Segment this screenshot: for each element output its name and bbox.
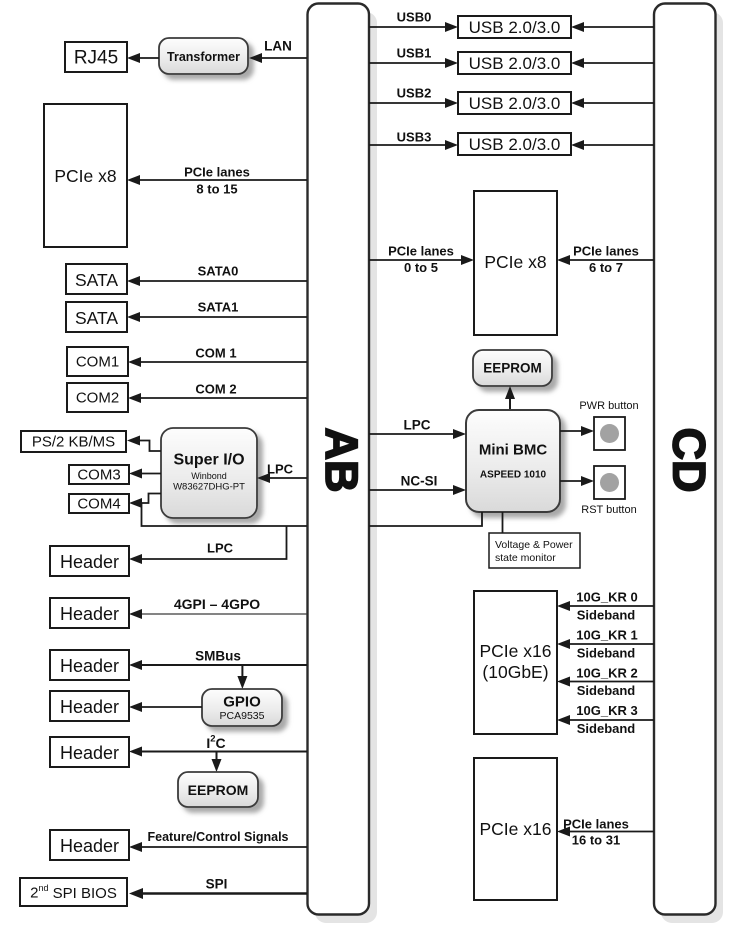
wire Mini BMC to RST button xyxy=(560,476,594,486)
wire I2C branch down to EEPROM xyxy=(212,752,222,773)
svg-text:GPIO: GPIO xyxy=(223,694,261,711)
label COM 2 xyxy=(195,382,236,397)
block GPIO PCA9535 xyxy=(202,689,282,726)
wire Mini BMC bottom to AB LPC bus xyxy=(369,512,482,526)
label USB3 xyxy=(397,130,432,145)
label SATA1 xyxy=(198,300,239,315)
label SMBus xyxy=(195,649,241,664)
block EEPROM lower-left xyxy=(178,772,258,807)
block COM4 xyxy=(69,494,129,513)
label USB2 xyxy=(397,86,432,101)
svg-text:RJ45: RJ45 xyxy=(74,48,118,69)
svg-text:Header: Header xyxy=(60,743,119,763)
block PCIe x16 bottom xyxy=(474,758,557,900)
label Feature/Control Signals xyxy=(148,830,289,844)
wire Super I/O to COM4 xyxy=(129,494,161,509)
svg-text:PCIe x8: PCIe x8 xyxy=(484,252,546,272)
wire Mini BMC to EEPROM xyxy=(505,386,515,410)
block Header LPC xyxy=(50,546,129,576)
svg-text:0 to 5: 0 to 5 xyxy=(404,260,438,275)
svg-text:Sideband: Sideband xyxy=(577,683,636,698)
svg-text:10G_KR 0: 10G_KR 0 xyxy=(576,590,637,605)
label NC-SI xyxy=(401,474,438,489)
wire Mini BMC to Voltage monitor xyxy=(502,512,504,533)
wire Super I/O to COM3 xyxy=(129,469,161,479)
block COM2 xyxy=(67,383,128,412)
svg-text:SMBus: SMBus xyxy=(195,649,241,664)
block PCIe x8 left xyxy=(44,104,127,247)
block PS/2 KB/MS xyxy=(21,431,126,452)
block SATA upper xyxy=(66,264,127,294)
svg-text:USB2: USB2 xyxy=(397,86,432,101)
svg-text:NC-SI: NC-SI xyxy=(401,474,438,489)
svg-text:RST button: RST button xyxy=(581,504,636,516)
svg-text:LPC: LPC xyxy=(267,462,294,477)
wire I2C xyxy=(129,747,307,757)
block Header I2C xyxy=(50,737,129,767)
svg-text:Header: Header xyxy=(60,836,119,856)
svg-text:AB: AB xyxy=(316,428,367,493)
block COM1 xyxy=(67,347,128,376)
svg-text:Header: Header xyxy=(60,697,119,717)
block Header SMBus xyxy=(50,650,129,680)
svg-text:LPC: LPC xyxy=(207,541,234,556)
block PCIe x16 10GbE xyxy=(474,591,557,734)
svg-text:USB 2.0/3.0: USB 2.0/3.0 xyxy=(469,135,561,154)
wire Mini BMC to PWR button xyxy=(560,426,594,436)
block EEPROM middle xyxy=(473,350,552,386)
wire PCIe lanes 16 to 31 xyxy=(557,827,654,837)
svg-text:Voltage & Power: Voltage & Power xyxy=(495,539,573,551)
block Super I/O xyxy=(161,428,257,518)
svg-text:USB1: USB1 xyxy=(397,46,432,61)
block Mini BMC xyxy=(466,410,560,512)
wire Transformer to RJ45 xyxy=(127,53,159,63)
block Voltage & Power state monitor xyxy=(489,533,580,568)
svg-text:10G_KR 3: 10G_KR 3 xyxy=(576,703,637,718)
block Header Feature xyxy=(50,830,129,860)
label PWR button xyxy=(579,400,638,412)
svg-text:SATA: SATA xyxy=(75,308,118,328)
svg-text:Feature/Control Signals: Feature/Control Signals xyxy=(148,830,289,844)
label I2C xyxy=(206,733,225,751)
svg-text:COM2: COM2 xyxy=(76,390,119,407)
svg-text:6 to 7: 6 to 7 xyxy=(589,260,623,275)
wire NC-SI from AB to Mini BMC xyxy=(369,485,466,495)
svg-text:Header: Header xyxy=(60,552,119,572)
block RJ45 xyxy=(65,42,127,72)
label LPC at header xyxy=(207,541,234,556)
label PCIe lanes 0 to 5 xyxy=(388,244,454,276)
svg-text:Header: Header xyxy=(60,656,119,676)
block COM3 xyxy=(69,465,129,484)
svg-text:Sideband: Sideband xyxy=(577,646,636,661)
svg-text:10G_KR 1: 10G_KR 1 xyxy=(576,628,637,643)
wire SPI xyxy=(129,888,307,899)
block Header 4GPI xyxy=(50,598,129,628)
svg-text:PCA9535: PCA9535 xyxy=(220,710,265,722)
wire 10G_KR 2 Sideband xyxy=(557,677,654,687)
svg-text:Header: Header xyxy=(60,604,119,624)
wire SMBus xyxy=(129,660,307,670)
wire PCIe lanes 6 to 7 xyxy=(557,255,654,265)
wire SATA1 xyxy=(127,312,307,322)
svg-text:PCIe lanes: PCIe lanes xyxy=(388,244,454,259)
wire USB box1 from CD xyxy=(571,22,654,32)
wire 10G_KR 1 Sideband xyxy=(557,639,654,649)
wire USB box2 from CD xyxy=(571,58,654,68)
label LPC at Super I/O xyxy=(267,462,294,477)
svg-text:COM 2: COM 2 xyxy=(195,382,236,397)
svg-text:8 to 15: 8 to 15 xyxy=(196,182,237,197)
label LPC at Mini BMC xyxy=(404,418,431,433)
label PCIe lanes 16 to 31 xyxy=(563,817,629,848)
svg-text:USB 2.0/3.0: USB 2.0/3.0 xyxy=(469,94,561,113)
block PCIe x8 middle xyxy=(474,191,557,335)
svg-text:Sideband: Sideband xyxy=(577,721,636,736)
label 10G_KR 1 Sideband xyxy=(576,628,637,661)
svg-text:Winbond: Winbond xyxy=(191,471,227,481)
wire LPC from AB to Super I/O xyxy=(257,473,307,483)
label SPI xyxy=(206,877,228,892)
svg-text:PCIe lanes: PCIe lanes xyxy=(184,165,250,180)
svg-text:SATA: SATA xyxy=(75,270,118,290)
wire 10G_KR 3 Sideband xyxy=(557,715,654,725)
svg-text:state monitor: state monitor xyxy=(495,552,556,564)
wire USB0 from AB xyxy=(369,22,458,32)
svg-text:(10GbE): (10GbE) xyxy=(482,662,548,682)
block USB 2.0/3.0 no1 xyxy=(458,16,571,38)
svg-text:PWR button: PWR button xyxy=(579,400,638,412)
svg-text:PCIe lanes: PCIe lanes xyxy=(563,817,629,832)
wire SATA0 xyxy=(127,276,307,286)
label 10G_KR 0 Sideband xyxy=(576,590,637,623)
label RST button xyxy=(581,504,636,516)
wire 4GPI-4GPO xyxy=(129,609,307,619)
block USB 2.0/3.0 no4 xyxy=(458,133,571,155)
wire USB box4 from CD xyxy=(571,140,654,150)
svg-text:PCIe x16: PCIe x16 xyxy=(480,641,552,661)
svg-text:USB 2.0/3.0: USB 2.0/3.0 xyxy=(469,18,561,37)
wire USB box3 from CD xyxy=(571,98,654,108)
block RST button xyxy=(594,466,625,499)
svg-text:10G_KR 2: 10G_KR 2 xyxy=(576,666,637,681)
svg-text:16 to 31: 16 to 31 xyxy=(572,833,620,848)
wire Feature/Control Signals xyxy=(129,842,307,852)
svg-text:4GPI – 4GPO: 4GPI – 4GPO xyxy=(174,596,260,612)
block Header GPIO xyxy=(50,691,129,721)
svg-text:USB3: USB3 xyxy=(397,130,432,145)
wire COM 2 xyxy=(128,393,307,403)
svg-text:USB 2.0/3.0: USB 2.0/3.0 xyxy=(469,54,561,73)
svg-text:COM1: COM1 xyxy=(76,354,119,371)
block USB 2.0/3.0 no3 xyxy=(458,92,571,114)
wire USB2 from AB xyxy=(369,98,458,108)
svg-text:LAN: LAN xyxy=(264,39,292,54)
block SATA lower xyxy=(66,302,127,332)
svg-text:COM 1: COM 1 xyxy=(195,346,236,361)
wire USB3 from AB xyxy=(369,140,458,150)
svg-text:PCIe x16: PCIe x16 xyxy=(480,819,552,839)
svg-text:PCIe x8: PCIe x8 xyxy=(54,166,116,186)
svg-text:Sideband: Sideband xyxy=(577,608,636,623)
label SATA0 xyxy=(198,264,239,279)
connector AB xyxy=(308,4,378,924)
label PCIe lanes 8 to 15 xyxy=(184,165,250,197)
svg-text:EEPROM: EEPROM xyxy=(188,782,249,798)
svg-text:Mini BMC: Mini BMC xyxy=(479,442,547,459)
block Transformer xyxy=(159,38,248,74)
svg-text:SPI: SPI xyxy=(206,877,228,892)
label LAN xyxy=(264,39,292,54)
svg-text:EEPROM: EEPROM xyxy=(483,361,542,376)
label USB0 xyxy=(397,10,432,25)
block USB 2.0/3.0 no2 xyxy=(458,52,571,74)
wire SMBus branch down to GPIO xyxy=(237,665,247,689)
svg-text:LPC: LPC xyxy=(404,418,431,433)
label 10G_KR 3 Sideband xyxy=(576,703,637,736)
wire USB1 from AB xyxy=(369,58,458,68)
svg-text:W83627DHG-PT: W83627DHG-PT xyxy=(173,482,245,493)
label PCIe lanes 6 to 7 xyxy=(573,244,639,276)
svg-text:COM3: COM3 xyxy=(77,467,120,484)
label USB1 xyxy=(397,46,432,61)
wire COM 1 xyxy=(128,357,307,367)
svg-text:Super I/O: Super I/O xyxy=(173,452,244,469)
wire PCIe lanes 0 to 5 xyxy=(369,255,474,265)
svg-text:CD: CD xyxy=(664,428,715,493)
wire LPC from AB to Mini BMC xyxy=(369,429,466,439)
svg-text:COM4: COM4 xyxy=(77,496,120,513)
svg-text:SATA1: SATA1 xyxy=(198,300,239,315)
wire LPC bus from AB to COM4 junction and LPC header xyxy=(129,503,307,564)
label 4GPI - 4GPO xyxy=(174,596,260,612)
svg-text:SATA0: SATA0 xyxy=(198,264,239,279)
svg-text:PS/2 KB/MS: PS/2 KB/MS xyxy=(32,434,115,451)
svg-text:Transformer: Transformer xyxy=(167,50,240,64)
svg-text:PCIe lanes: PCIe lanes xyxy=(573,244,639,259)
block PWR button xyxy=(594,417,625,450)
svg-text:I2C: I2C xyxy=(206,733,225,751)
wire 10G_KR 0 Sideband xyxy=(557,601,654,611)
label COM 1 xyxy=(195,346,236,361)
svg-text:USB0: USB0 xyxy=(397,10,432,25)
wire Super I/O to PS/2 KB/MS xyxy=(127,436,161,452)
wire PCIe lanes 8 to 15 xyxy=(127,175,307,185)
label 10G_KR 2 Sideband xyxy=(576,666,637,699)
connector CD xyxy=(654,4,723,924)
block 2nd SPI BIOS xyxy=(20,878,127,906)
wire GPIO to Header xyxy=(129,702,202,712)
wire LAN from AB to Transformer xyxy=(249,53,307,63)
svg-text:ASPEED 1010: ASPEED 1010 xyxy=(480,470,547,481)
